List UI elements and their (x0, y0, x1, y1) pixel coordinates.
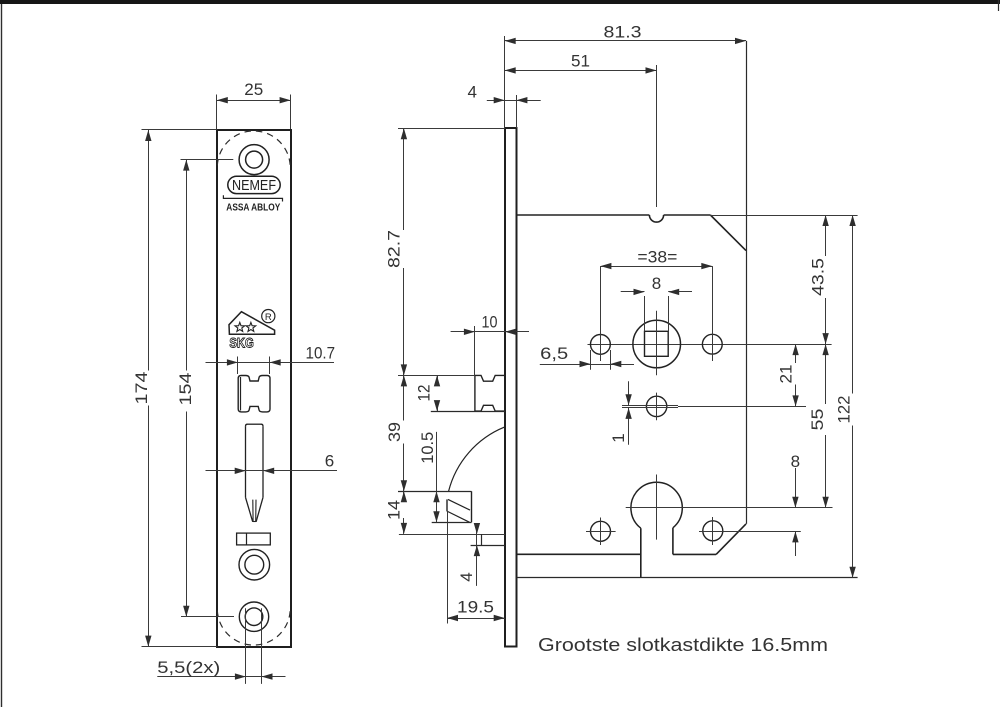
dashed rounded-end arc top (217, 131, 290, 166)
dim 55 line (822, 344, 828, 508)
case bottom edge full (517, 577, 858, 579)
svg-text:12: 12 (415, 385, 434, 402)
ASSA ABLOY text (226, 202, 280, 214)
cylinder horizontal centerline (626, 507, 833, 509)
svg-text:55: 55 (808, 409, 827, 431)
dim 174 ext bottom (142, 646, 217, 648)
dim 8 square ext left (644, 296, 646, 331)
dim 8 square ext right (668, 296, 670, 331)
middle hub inner circle (245, 555, 264, 574)
dim 8 square text (652, 274, 661, 293)
dim 10.7 ext right (269, 357, 271, 375)
dim 10 ext left (474, 326, 476, 375)
svg-text:82.7: 82.7 (384, 230, 403, 268)
deadbolt top edge with extension (398, 491, 472, 493)
scan border top bar (0, 0, 1000, 4)
dim 122 line (849, 215, 855, 578)
case lower left hole (591, 521, 611, 541)
dim 12 text (415, 385, 434, 402)
case top notch arc (649, 215, 663, 222)
svg-text:4: 4 (457, 572, 476, 581)
svg-text:122: 122 (835, 396, 854, 424)
dim 154 text (176, 373, 195, 406)
step box bottom line (471, 545, 505, 547)
small hole vertical centerline (656, 393, 658, 421)
bottom hole left extension line (245, 608, 247, 684)
svg-text:14: 14 (385, 500, 404, 520)
svg-text:5,5(2x): 5,5(2x) (157, 658, 220, 677)
svg-text:39: 39 (385, 422, 404, 442)
dim 39 text (385, 422, 404, 442)
dim 5,5(2x) text (157, 658, 220, 677)
dim 5,5(2x) line (157, 673, 285, 679)
left hole vertical centerline (600, 266, 602, 361)
dim 10.7 ext left (237, 357, 239, 375)
middle hub outer circle (239, 549, 270, 580)
dim 10.7 line (206, 359, 335, 365)
lower right hole h centerline with 8 extension (699, 531, 801, 533)
dim 1 text (609, 433, 628, 442)
svg-text:6,5: 6,5 (540, 344, 568, 363)
SKG star left (235, 322, 245, 331)
deadbolt right edge (471, 491, 473, 522)
latch bevel inner edge (240, 377, 242, 411)
case bottom right chamfer (716, 524, 746, 555)
dim 6,5 line (540, 361, 634, 367)
SKG star right (246, 322, 256, 331)
dim 174 text (132, 372, 151, 405)
svg-text:6: 6 (325, 452, 334, 471)
small hole below follower (646, 396, 666, 416)
dim 174 line (145, 130, 151, 647)
case top right chamfer (710, 215, 746, 251)
bolt pin top cap (248, 423, 262, 425)
euro cylinder circle (631, 482, 682, 528)
bolt pin shaft right edge (261, 424, 263, 497)
dim 25 text (244, 80, 263, 99)
dim 81.3 ext left (504, 36, 506, 128)
bolt pin shaft left edge (246, 424, 248, 497)
step box top line with 14 extension (399, 534, 505, 536)
bottom mounting hole outer (239, 602, 268, 631)
follower circle (633, 320, 681, 368)
left 6.5 hole (591, 335, 611, 355)
bolt pin slot right (255, 500, 257, 522)
offset line lower (622, 407, 678, 409)
right hole (702, 334, 722, 354)
dim 4 top text (467, 82, 476, 101)
cylinder slot left edge (640, 528, 642, 578)
dim 14 line (401, 491, 407, 534)
svg-text:174: 174 (132, 372, 151, 405)
dim 82.7 text (384, 230, 403, 268)
deadbolt hatch line upper (448, 499, 470, 510)
svg-text:SKG: SKG (229, 336, 254, 351)
scan border right edge tick (998, 0, 1000, 11)
svg-text:=38=: =38= (637, 248, 677, 267)
dim 43.5 text (809, 258, 828, 296)
top mounting hole outer (239, 145, 269, 175)
dim 10 text (482, 313, 498, 332)
offset line upper (622, 405, 678, 407)
dim 154 ext bottom (181, 616, 234, 618)
dim 154 line (183, 160, 189, 617)
registered trademark R (265, 312, 272, 323)
dim 6,5 ext right (610, 350, 612, 370)
latch bottom edge with extension (431, 411, 505, 413)
svg-text:ASSA ABLOY: ASSA ABLOY (226, 202, 280, 214)
faceplate front plate outline (217, 130, 291, 647)
deadbolt hatch line lower (447, 511, 470, 522)
NEMEF underline (223, 195, 282, 201)
svg-text:NEMEF: NEMEF (232, 178, 276, 194)
dim 8 right text (791, 452, 800, 471)
dim =38= text (637, 248, 677, 267)
case bottom edge right of slot (673, 553, 716, 555)
dim 122 text (835, 396, 854, 424)
lower right hole v centerline (712, 517, 714, 545)
svg-text:25: 25 (244, 80, 263, 99)
deadbolt bottom edge with extension (432, 522, 472, 524)
case top edge left segment (517, 214, 650, 216)
case top edge right segment (664, 214, 711, 216)
lower left hole h centerline (586, 531, 616, 533)
follower square hole (645, 331, 669, 356)
svg-text:Grootste slotkastdikte 16.5mm: Grootste slotkastdikte 16.5mm (538, 635, 828, 655)
bolt pin taper right (256, 497, 263, 521)
dim 51 line (505, 67, 657, 73)
bolt pin taper left (246, 497, 253, 521)
svg-text:10.7: 10.7 (306, 343, 336, 362)
dim 10.7 text (306, 343, 336, 362)
svg-text:43.5: 43.5 (809, 258, 828, 296)
dim 81.3 line (505, 38, 746, 44)
bolt pin tip cap (253, 521, 256, 523)
dim 81.3 text (604, 22, 642, 41)
lower left hole v centerline (600, 518, 602, 546)
dim 51 ext right (656, 65, 658, 207)
dim 82.7 line (401, 128, 407, 375)
dim 19.5 text (457, 598, 494, 617)
dim 10 line (451, 329, 529, 335)
svg-text:10.5: 10.5 (418, 432, 437, 464)
SKG text (229, 336, 254, 351)
dim 39 line (401, 375, 407, 491)
NEMEF logo stadium (228, 176, 280, 193)
dim 25 ext left (216, 95, 218, 130)
dim 8 right line (792, 468, 798, 556)
dim 4 top ext right (516, 95, 518, 128)
dim 19.5 line (447, 615, 505, 621)
svg-text:10: 10 (482, 313, 498, 332)
dim 10.5 text (418, 432, 437, 464)
SKG house pentagon (229, 312, 275, 335)
follower vertical centerline (656, 311, 658, 376)
dim 6,5 text (540, 344, 568, 363)
dim 82.7 ext top (398, 128, 505, 130)
dim 6,5 ext left (590, 350, 592, 370)
deadbolt swing arc (449, 427, 505, 491)
note grootste slotkastdikte (538, 635, 828, 655)
dim 21 text (776, 365, 795, 384)
latch top extension line (398, 375, 475, 377)
cylinder slot right edge (672, 528, 674, 555)
bottom mounting hole inner (245, 608, 263, 626)
dim 122 ext top (710, 215, 857, 217)
dim 14 text (385, 500, 404, 520)
svg-text:8: 8 (791, 452, 800, 471)
dim 4 top line (487, 97, 541, 103)
scan border left edge line (1, 4, 3, 707)
svg-text:19.5: 19.5 (457, 598, 494, 617)
bolt pin slot left (252, 500, 254, 522)
deadbolt front edge (446, 499, 448, 511)
hole row centerline (588, 344, 832, 346)
dim 25 ext right (290, 95, 292, 130)
dim 21 line (792, 344, 798, 406)
small hole extension line right (678, 406, 806, 408)
dim 12 line (434, 375, 440, 411)
dim =38= line (600, 263, 712, 269)
case step edge left of slot (517, 553, 641, 555)
dim 6 text (325, 452, 334, 471)
svg-text:8: 8 (652, 274, 661, 293)
NEMEF logo text (232, 178, 276, 194)
dim 6 line (206, 468, 338, 474)
case right edge (746, 41, 748, 524)
registered trademark circle (262, 310, 275, 323)
latch side view box (475, 375, 505, 411)
svg-text:1: 1 (609, 433, 628, 442)
bottom hole right extension line (261, 608, 263, 684)
svg-text:4: 4 (467, 82, 476, 101)
dashed rounded-end arc bottom (217, 611, 290, 646)
svg-text:154: 154 (176, 373, 195, 406)
small rectangle divider (246, 533, 248, 545)
svg-text:51: 51 (571, 52, 590, 71)
deadbolt front extension line down (447, 511, 449, 624)
svg-text:21: 21 (776, 365, 795, 384)
dim 1 line (625, 381, 631, 444)
dim 8 square line (621, 289, 692, 295)
dim 4 bolt line (474, 523, 480, 586)
cylinder vertical centerline (656, 475, 658, 540)
svg-text:81.3: 81.3 (604, 22, 642, 41)
dim 51 text (571, 52, 590, 71)
small rectangle window (237, 533, 271, 545)
right hole vertical centerline (712, 266, 714, 361)
faceplate side strip (505, 128, 517, 647)
dim 174 ext top (142, 129, 217, 131)
dim 4 bolt text (457, 572, 476, 581)
case lower right hole (703, 521, 723, 541)
dim 25 line (217, 97, 291, 103)
svg-text:R: R (265, 312, 272, 323)
latch opening front view (238, 376, 270, 412)
dim 10.5 line (433, 432, 439, 522)
dim 55 text (808, 409, 827, 431)
top mounting hole inner (246, 151, 263, 168)
dim 154 ext top (181, 159, 234, 161)
dim 43.5 line (822, 215, 828, 344)
step box left edge (481, 534, 483, 545)
